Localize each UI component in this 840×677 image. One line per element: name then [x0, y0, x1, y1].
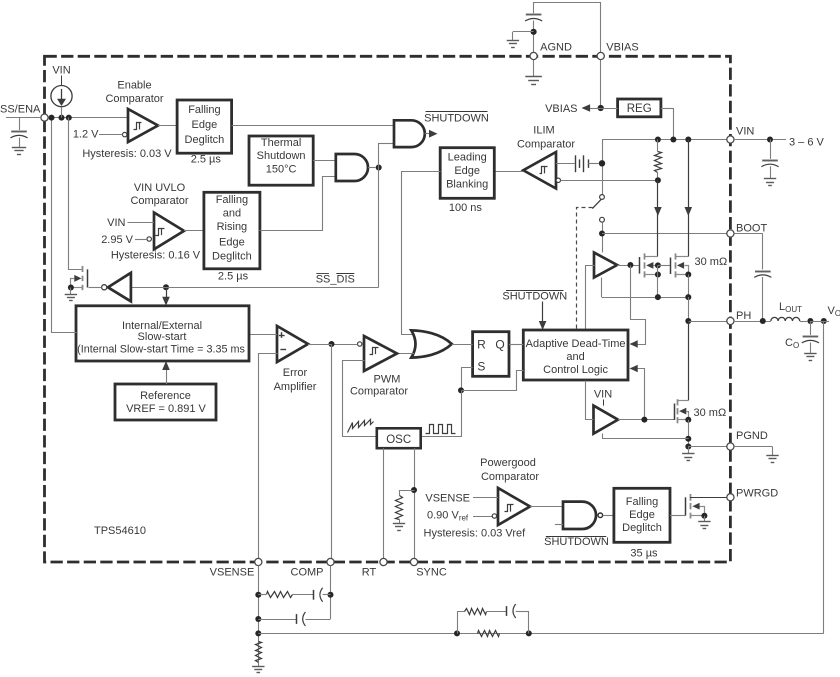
svg-text:30 mΩ: 30 mΩ	[694, 407, 727, 419]
svg-text:Hysteresis: 0.03 Vref: Hysteresis: 0.03 Vref	[424, 528, 527, 540]
svg-text:BOOT: BOOT	[736, 223, 767, 235]
svg-text:PH: PH	[736, 310, 751, 322]
svg-text:Thermal: Thermal	[261, 137, 301, 149]
svg-text:VIN: VIN	[594, 389, 612, 401]
svg-text:35 µs: 35 µs	[630, 548, 658, 560]
svg-text:SHUTDOWN: SHUTDOWN	[424, 113, 489, 125]
svg-text:SS/ENA: SS/ENA	[0, 104, 41, 116]
svg-text:Control Logic: Control Logic	[543, 364, 608, 376]
svg-text:SHUTDOWN: SHUTDOWN	[502, 291, 567, 303]
svg-text:RT: RT	[362, 567, 377, 579]
svg-text:Comparator: Comparator	[481, 471, 539, 483]
svg-text:1.2 V: 1.2 V	[73, 129, 99, 141]
svg-text:Powergood: Powergood	[480, 457, 536, 469]
svg-text:VREF = 0.891 V: VREF = 0.891 V	[126, 403, 206, 415]
svg-text:TPS54610: TPS54610	[94, 525, 146, 537]
svg-text:VSENSE: VSENSE	[210, 567, 255, 579]
svg-text:100 ns: 100 ns	[449, 202, 483, 214]
svg-text:2.5 µs: 2.5 µs	[218, 270, 249, 282]
svg-text:Comparator: Comparator	[350, 385, 408, 397]
svg-text:Amplifier: Amplifier	[274, 381, 317, 393]
svg-text:150°C: 150°C	[266, 163, 297, 175]
svg-text:REG: REG	[627, 103, 652, 115]
svg-text:2.5 µs: 2.5 µs	[191, 154, 222, 166]
svg-text:and: and	[566, 351, 584, 363]
svg-text:SYNC: SYNC	[416, 567, 447, 579]
svg-text:Enable: Enable	[117, 79, 151, 91]
svg-text:VIN: VIN	[736, 126, 754, 138]
svg-text:Blanking: Blanking	[446, 179, 488, 191]
svg-text:Edge: Edge	[192, 119, 218, 131]
svg-text:VIN: VIN	[52, 65, 70, 77]
svg-text:AGND: AGND	[540, 42, 572, 54]
svg-text:Edge: Edge	[219, 237, 245, 249]
svg-text:30 mΩ: 30 mΩ	[695, 256, 728, 268]
svg-text:Q: Q	[495, 338, 504, 352]
svg-text:Comparator: Comparator	[517, 139, 575, 151]
svg-text:Comparator: Comparator	[130, 195, 188, 207]
svg-text:Leading: Leading	[448, 152, 487, 164]
svg-text:OSC: OSC	[386, 434, 411, 446]
svg-text:and: and	[223, 208, 241, 220]
svg-text:VIN UVLO: VIN UVLO	[134, 182, 186, 194]
svg-text:Rising: Rising	[217, 221, 248, 233]
svg-text:COMP: COMP	[291, 567, 324, 579]
svg-text:ILIM: ILIM	[533, 125, 554, 137]
svg-text:VBIAS: VBIAS	[606, 42, 638, 54]
svg-text:PWRGD: PWRGD	[736, 488, 778, 500]
svg-text:Falling: Falling	[188, 104, 220, 116]
svg-text:R: R	[477, 338, 486, 352]
svg-text:Hysteresis: 0.16 V: Hysteresis: 0.16 V	[111, 250, 201, 262]
svg-text:S: S	[477, 359, 485, 373]
svg-text:3 – 6 V: 3 – 6 V	[789, 137, 825, 149]
svg-text:Edge: Edge	[629, 509, 655, 521]
svg-text:VIN: VIN	[107, 217, 125, 229]
svg-text:Deglitch: Deglitch	[622, 522, 662, 534]
svg-text:Falling: Falling	[216, 194, 248, 206]
svg-text:Shutdown: Shutdown	[257, 150, 306, 162]
svg-text:2.95 V: 2.95 V	[101, 234, 133, 246]
svg-text:PGND: PGND	[736, 430, 768, 442]
svg-text:PWM: PWM	[374, 374, 401, 386]
svg-text:SHUTDOWN: SHUTDOWN	[544, 536, 609, 548]
svg-text:Reference: Reference	[140, 390, 191, 402]
svg-text:VSENSE: VSENSE	[425, 493, 470, 505]
svg-text:Comparator: Comparator	[105, 93, 163, 105]
svg-text:Deglitch: Deglitch	[185, 134, 225, 146]
svg-text:Hysteresis: 0.03 V: Hysteresis: 0.03 V	[82, 148, 172, 160]
svg-text:Edge: Edge	[454, 165, 480, 177]
svg-text:Deglitch: Deglitch	[212, 251, 252, 263]
svg-text:SS_DIS: SS_DIS	[316, 274, 355, 286]
svg-text:(Internal Slow-start Time = 3.: (Internal Slow-start Time = 3.35 ms	[77, 343, 245, 355]
svg-text:Falling: Falling	[626, 496, 658, 508]
svg-text:Slow-start: Slow-start	[138, 331, 187, 343]
svg-text:Error: Error	[283, 367, 308, 379]
svg-text:Adaptive Dead-Time: Adaptive Dead-Time	[526, 338, 626, 350]
svg-text:VBIAS: VBIAS	[545, 103, 577, 115]
